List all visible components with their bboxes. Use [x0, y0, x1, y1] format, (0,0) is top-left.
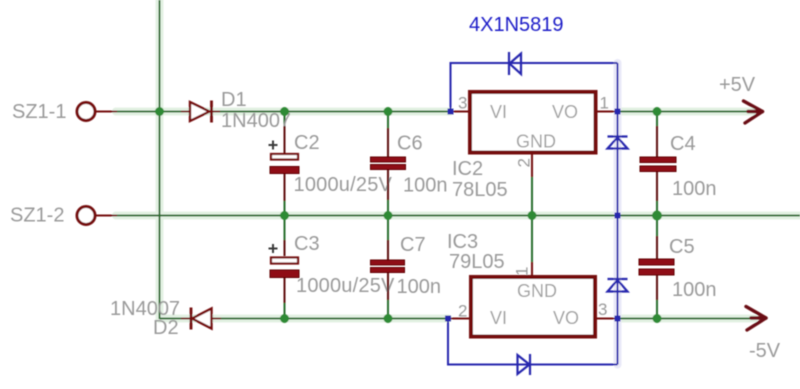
svg-text:C5: C5: [669, 236, 695, 258]
wire C5 bottom lead: [656, 299, 658, 319]
junction C6 top: [384, 107, 393, 116]
wire C6 top lead: [387, 112, 389, 130]
capacitor C7: [371, 240, 405, 300]
wire bottom rail: VO node to -5V arrow: [618, 318, 755, 320]
capacitor C2: [269, 126, 300, 201]
wire C2 top lead: [284, 112, 286, 128]
svg-text:4X1N5819: 4X1N5819: [469, 14, 564, 36]
svg-text:+5V: +5V: [719, 74, 756, 96]
svg-text:C2: C2: [294, 132, 320, 154]
capacitor C3: [269, 240, 300, 303]
junction C4 top: [653, 107, 662, 116]
schottky diode top (1N5819): [509, 52, 521, 75]
svg-text:VI: VI: [490, 102, 507, 122]
svg-text:1: 1: [600, 94, 609, 113]
junction C5 bottom: [653, 314, 662, 323]
junction C3 bottom: [280, 314, 289, 323]
svg-text:VO: VO: [553, 308, 579, 328]
schottky diode right upper (1N5819): [608, 137, 628, 149]
svg-text:100n: 100n: [397, 276, 442, 298]
capacitor C5: [639, 236, 674, 300]
wire C7 bottom lead: [387, 299, 389, 319]
svg-text:C6: C6: [397, 133, 423, 155]
terminal SZ1-1: [77, 103, 117, 121]
wire C4 top lead: [656, 112, 658, 128]
wire C3 top lead: [284, 216, 286, 242]
svg-text:-5V: -5V: [749, 340, 781, 362]
diode D2: [181, 308, 221, 330]
svg-text:D2: D2: [153, 317, 179, 339]
wire C5 top lead: [656, 216, 658, 238]
diode D1: [181, 101, 220, 123]
junction C6/C7 mid: [384, 211, 393, 220]
svg-text:2: 2: [515, 158, 534, 167]
svg-text:IC2: IC2: [452, 158, 483, 180]
+5V arrow: [744, 101, 763, 123]
svg-text:SZ1-1: SZ1-1: [12, 101, 66, 123]
capacitor C6: [371, 128, 406, 200]
svg-text:100n: 100n: [403, 175, 448, 197]
wire C6 bottom lead: [387, 199, 389, 216]
junction bus/top rail: [155, 107, 164, 116]
svg-text:1: 1: [513, 267, 532, 276]
schottky diode right lower (1N5819): [608, 279, 628, 292]
wire schottky top loop (blue): [451, 63, 618, 112]
blue junction VO node: [615, 109, 621, 115]
wire C2 bottom lead: [284, 199, 286, 216]
wire top rail: D1 cathode to IC2 VI: [116, 111, 451, 113]
blue junction GND node: [615, 213, 621, 219]
regulator IC2 78L05: [451, 92, 618, 177]
wire C7 top lead: [387, 216, 389, 242]
blue junction VI node: [448, 109, 454, 115]
terminal SZ1-2: [77, 207, 117, 225]
svg-text:GND: GND: [516, 132, 556, 152]
regulator IC3 79L05: [448, 262, 618, 337]
blue junction IC3 VI node: [445, 316, 451, 322]
svg-text:1000u/25V: 1000u/25V: [296, 275, 395, 297]
junction C2 top: [280, 107, 289, 116]
svg-text:VI: VI: [490, 308, 507, 328]
svg-text:2: 2: [458, 302, 467, 321]
svg-text:C3: C3: [294, 233, 320, 255]
svg-text:C4: C4: [670, 133, 696, 155]
wire schottky bottom loop (blue): [448, 319, 618, 365]
junction GND pins mid: [528, 211, 537, 220]
wire IC2 GND to mid rail: [531, 176, 533, 216]
svg-text:VO: VO: [552, 102, 578, 122]
svg-text:C7: C7: [400, 234, 426, 256]
svg-text:79L05: 79L05: [449, 251, 505, 273]
junction C4/C5 mid: [652, 211, 662, 221]
wire C4 bottom lead: [656, 200, 658, 216]
svg-text:D1: D1: [221, 89, 247, 111]
wire IC3 GND to mid rail: [531, 216, 533, 264]
svg-text:3: 3: [458, 94, 467, 113]
wire C3 bottom lead: [284, 302, 286, 319]
svg-text:GND: GND: [517, 281, 557, 301]
svg-text:1000u/25V: 1000u/25V: [294, 174, 393, 196]
wire bottom rail: bus to IC3 VI: [160, 318, 449, 320]
junction C7 bottom: [384, 314, 393, 323]
svg-text:78L05: 78L05: [452, 179, 508, 201]
capacitor C4: [640, 126, 676, 201]
wire vertical input bus: [159, 0, 161, 319]
wire mid rail (GND net): [116, 215, 800, 217]
svg-text:3: 3: [598, 300, 607, 319]
svg-text:SZ1-2: SZ1-2: [10, 205, 64, 227]
blue junction -V node: [615, 316, 621, 322]
svg-text:100n: 100n: [672, 279, 717, 301]
junction C2/C3 mid: [280, 211, 289, 220]
svg-text:100n: 100n: [672, 178, 717, 200]
wire schottky right bus (blue): [617, 63, 619, 365]
wire top rail: VO node to +5V arrow: [618, 111, 753, 113]
schottky diode bottom (1N5819): [518, 354, 531, 375]
-5V arrow: [746, 307, 766, 331]
svg-text:IC3: IC3: [447, 231, 478, 253]
